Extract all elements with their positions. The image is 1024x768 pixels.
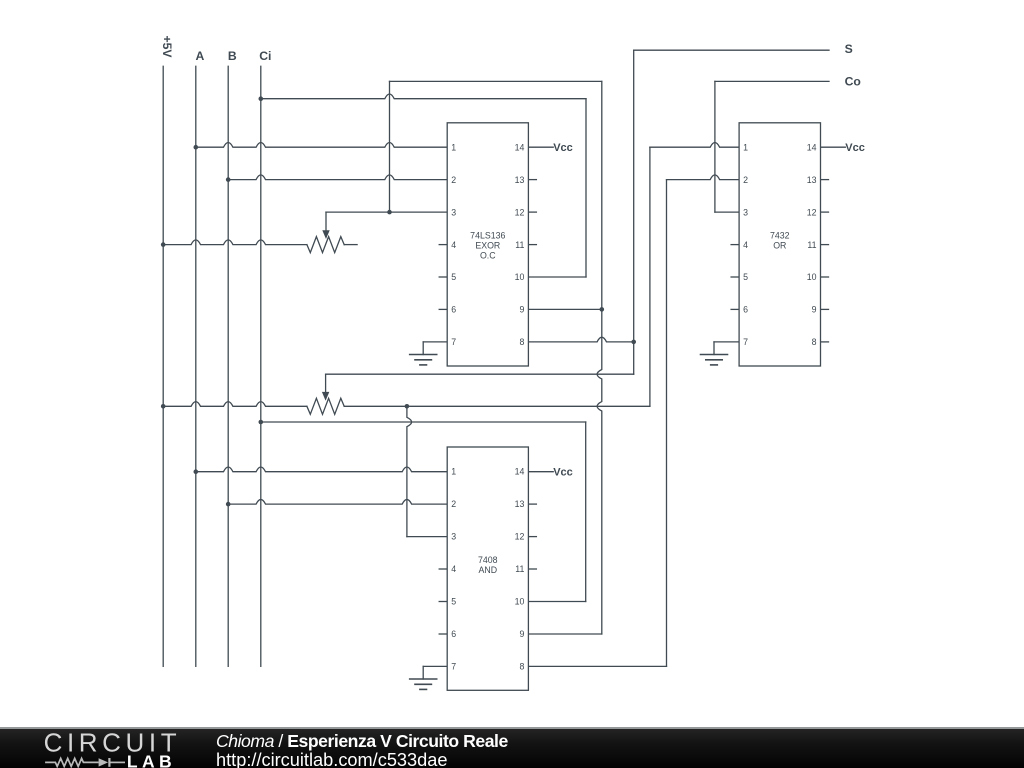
logo resistor-diode drawing xyxy=(45,758,125,767)
ground U2 GND xyxy=(701,342,728,365)
wire R1 right stub xyxy=(344,244,357,246)
svg-text:O.C: O.C xyxy=(480,251,496,261)
junction Ci tap xyxy=(259,96,264,101)
wire U2 pin1 riser xyxy=(649,147,651,406)
wire U2 pin2 lead xyxy=(667,175,740,180)
svg-text:11: 11 xyxy=(515,564,524,574)
svg-text:8: 8 xyxy=(812,337,817,347)
junction B tap xyxy=(226,177,231,182)
wire drop to U3 pin10 xyxy=(585,422,587,602)
pin stub U2 pin12 xyxy=(821,211,829,213)
svg-text:5: 5 xyxy=(451,272,456,282)
svg-text:2: 2 xyxy=(451,175,456,185)
pin stub U1 pin5 xyxy=(439,276,447,278)
svg-text:12: 12 xyxy=(515,207,525,217)
svg-text:9: 9 xyxy=(812,305,817,315)
svg-text:12: 12 xyxy=(807,207,817,217)
junction +5V tap R1 xyxy=(161,242,166,247)
wire U1 pin8 to S xyxy=(528,337,633,342)
wire feedback left drop to U1 pin3 node xyxy=(389,81,391,212)
svg-text:4: 4 xyxy=(743,240,748,250)
pin stub U2 pin9 xyxy=(821,308,829,310)
svg-text:Vcc: Vcc xyxy=(845,142,865,154)
pin stub U3 pin5 xyxy=(439,601,447,603)
svg-text:12: 12 xyxy=(515,532,525,542)
wire S to R2 wiper link xyxy=(326,373,634,375)
svg-text:13: 13 xyxy=(515,175,525,185)
wire U2 pin3 lead xyxy=(715,211,739,213)
svg-text:OR: OR xyxy=(773,241,786,251)
svg-text:3: 3 xyxy=(451,207,456,217)
svg-text:74LS136: 74LS136 xyxy=(470,231,505,241)
wire Co output xyxy=(715,80,829,82)
pin stub U3 pin6 xyxy=(439,633,447,635)
CircuitLab logo xyxy=(0,729,200,768)
wire +5V to R2 xyxy=(163,402,307,407)
wire U1 pin10 lead xyxy=(528,276,586,278)
svg-text:5: 5 xyxy=(743,272,748,282)
junction U1 pin3 node xyxy=(387,210,392,215)
svg-text:11: 11 xyxy=(515,240,524,250)
svg-text:Co: Co xyxy=(845,75,861,89)
pin stub U1 pin6 xyxy=(439,308,447,310)
pin stub U2 pin4 xyxy=(731,244,739,246)
wire U1.9 to U3.9 long link xyxy=(597,81,602,634)
svg-text:6: 6 xyxy=(743,305,748,315)
wire B to U3 pin2 xyxy=(228,499,447,504)
pin stub U1 pin4 xyxy=(439,244,447,246)
svg-text:3: 3 xyxy=(451,532,456,542)
svg-text:Vcc: Vcc xyxy=(553,467,573,479)
resistor R1 (pot body) xyxy=(307,237,344,253)
svg-text:5: 5 xyxy=(451,596,456,606)
wire U3 pin9 lead xyxy=(528,633,601,635)
svg-text:2: 2 xyxy=(743,175,748,185)
svg-text:4: 4 xyxy=(451,240,456,250)
junction B tap lower xyxy=(226,502,231,507)
svg-text:6: 6 xyxy=(451,629,456,639)
svg-text:8: 8 xyxy=(519,337,524,347)
wire U3 pin8 lead xyxy=(528,665,666,667)
junction S junction xyxy=(631,340,636,345)
svg-text:1: 1 xyxy=(743,142,748,152)
wire B to U1 pin2 xyxy=(228,175,447,180)
svg-text:14: 14 xyxy=(807,142,817,152)
pin stub U3 pin4 xyxy=(439,568,447,570)
svg-text:14: 14 xyxy=(515,142,525,152)
svg-text:10: 10 xyxy=(515,596,525,606)
svg-text:2: 2 xyxy=(451,499,456,509)
wire U1 pin7 ground lead xyxy=(423,341,447,343)
svg-text:LAB: LAB xyxy=(127,751,176,768)
svg-text:Vcc: Vcc xyxy=(553,142,573,154)
pin stub U1 pin12 xyxy=(528,211,536,213)
IC U3 7408 xyxy=(447,447,528,690)
svg-text:10: 10 xyxy=(515,272,525,282)
wire S vertical xyxy=(633,50,635,374)
junction U1 pin9 node xyxy=(600,307,605,312)
ground U1 GND xyxy=(410,342,437,365)
wire U1 pin14 to Vcc xyxy=(528,146,553,148)
svg-text:7: 7 xyxy=(451,661,456,671)
wire U2 pin7 ground lead xyxy=(714,341,739,343)
net Ci rail xyxy=(260,66,262,666)
pin stub U1 pin11 xyxy=(528,244,536,246)
svg-text:A: A xyxy=(195,49,204,63)
wire U2 pin14 to Vcc xyxy=(821,146,846,148)
wire U3 pin14 to Vcc xyxy=(528,471,553,473)
wire R1 wiper node to U1 pin3 xyxy=(326,211,447,213)
svg-text:9: 9 xyxy=(519,629,524,639)
pin stub U3 pin11 xyxy=(528,568,536,570)
wire U1.9 feedback top xyxy=(390,80,602,82)
wire Ci to U1 pin10 top xyxy=(261,94,586,99)
pin stub U2 pin8 xyxy=(821,341,829,343)
pin stub U2 pin13 xyxy=(821,179,829,181)
svg-text:13: 13 xyxy=(807,175,817,185)
svg-text:7: 7 xyxy=(743,337,748,347)
ground U3 GND xyxy=(410,666,437,689)
junction +5V tap R2 xyxy=(161,404,166,409)
net A rail xyxy=(195,66,197,666)
svg-text:10: 10 xyxy=(807,272,817,282)
svg-text:EXOR: EXOR xyxy=(475,241,500,251)
svg-text:+5V: +5V xyxy=(160,35,174,58)
svg-text:AND: AND xyxy=(479,565,498,575)
junction Ci tap lower xyxy=(259,420,264,425)
pin stub U2 pin6 xyxy=(731,308,739,310)
wire Co drop to U2 pin3 xyxy=(714,81,716,212)
IC U2 7432 xyxy=(739,123,820,366)
svg-text:14: 14 xyxy=(515,467,525,477)
wire Ci to U3 pin10 run xyxy=(261,421,586,423)
svg-text:11: 11 xyxy=(807,240,816,250)
pin stub U2 pin11 xyxy=(821,244,829,246)
wire R2 to U2 pin1 run xyxy=(344,405,650,407)
svg-text:Ci: Ci xyxy=(259,49,271,63)
svg-text:S: S xyxy=(845,42,853,56)
wire drop to U1 pin10 xyxy=(585,99,587,277)
wire U1 pin9 lead xyxy=(528,308,601,310)
wire A to U3 pin1 xyxy=(196,467,447,472)
net B rail xyxy=(227,66,229,666)
svg-text:8: 8 xyxy=(519,661,524,671)
svg-text:B: B xyxy=(228,49,237,63)
svg-text:6: 6 xyxy=(451,305,456,315)
svg-text:1: 1 xyxy=(451,467,456,477)
wire S output xyxy=(634,49,829,51)
wire A to U1 pin1 xyxy=(196,143,447,148)
svg-text:13: 13 xyxy=(515,499,525,509)
svg-text:9: 9 xyxy=(519,305,524,315)
wire U3 pin10 lead xyxy=(528,601,585,603)
svg-text:4: 4 xyxy=(451,564,456,574)
wire U3 pin3 lead xyxy=(407,536,447,538)
svg-text:1: 1 xyxy=(451,142,456,152)
svg-text:7408: 7408 xyxy=(478,555,498,565)
junction A tap lower xyxy=(194,469,199,474)
footer credits text xyxy=(215,728,217,730)
resistor R2 (pot body) xyxy=(307,398,344,414)
IC U1 74LS136 xyxy=(447,123,528,366)
wire U2 pin2 riser from U3 pin8 xyxy=(666,180,668,667)
pin stub U2 pin10 xyxy=(821,276,829,278)
svg-text:7432: 7432 xyxy=(770,231,790,241)
junction R2 output node xyxy=(405,404,410,409)
wire U2 pin1 lead xyxy=(650,143,739,148)
pin stub U2 pin5 xyxy=(731,276,739,278)
svg-text:3: 3 xyxy=(743,207,748,217)
wire U3 pin7 ground lead xyxy=(423,665,447,667)
wire +5V to R1 xyxy=(163,240,307,245)
pin stub U1 pin13 xyxy=(528,179,536,181)
pin stub U3 pin12 xyxy=(528,536,536,538)
net +5V rail xyxy=(162,66,164,666)
resistor R2 wiper arrow xyxy=(322,374,329,401)
junction A tap xyxy=(194,145,199,150)
resistor R1 wiper arrow xyxy=(322,212,329,239)
svg-text:7: 7 xyxy=(451,337,456,347)
pin stub U3 pin13 xyxy=(528,503,536,505)
wire U3 pin3 riser xyxy=(407,406,412,536)
